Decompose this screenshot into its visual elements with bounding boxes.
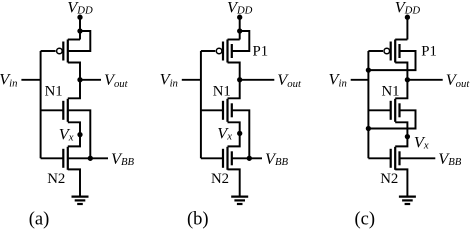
- N2 gate lead (c): [368, 157, 390, 159]
- ground (b): [231, 196, 248, 198]
- N2 source lead (c): [395, 169, 407, 196]
- nmos N2 (b): [226, 147, 228, 170]
- wire Vout to N1 drain (a): [68, 80, 80, 99]
- N1 source lead to Vx (a): [68, 122, 80, 146]
- wire VDD to PMOS source (b): [239, 17, 241, 39]
- node dot Vout (c): [405, 78, 409, 82]
- N2 source lead (b): [228, 169, 240, 196]
- wire PMOS bulk to VDD (b): [232, 31, 250, 51]
- wire Vout (a): [80, 79, 101, 81]
- nmos N1 (c): [394, 99, 396, 122]
- input bus wire (a): [40, 51, 42, 158]
- svg-text:P1: P1: [421, 43, 437, 59]
- VDD terminal dot (c): [405, 15, 409, 19]
- node dot Vx (a): [78, 132, 82, 136]
- ground (a): [72, 196, 89, 198]
- pmos drain lead to Vout (a): [68, 63, 80, 80]
- VDD terminal dot (a): [78, 15, 82, 19]
- pmos source lead (a): [68, 39, 80, 41]
- ground (c): [399, 196, 416, 198]
- wire N2 bulk to VBB (c): [400, 157, 436, 159]
- wire Vin to bus (b): [182, 79, 201, 81]
- svg-text:P1: P1: [253, 43, 269, 59]
- svg-text:N2: N2: [47, 171, 65, 187]
- wire PMOS bulk to VDD (a): [68, 31, 91, 51]
- node dot Vout (a): [78, 78, 82, 82]
- node dot Vx (c): [405, 134, 409, 138]
- VDD terminal dot (b): [238, 15, 242, 19]
- junction dot VDD/bulk (a): [78, 29, 82, 33]
- wire N1 bulk to VBB (a): [68, 110, 91, 158]
- pmos P1 (c): [394, 40, 396, 63]
- node dot bulk/bus junction (c): [366, 68, 370, 72]
- N2 gate lead (a): [41, 157, 64, 159]
- pmos drain lead to Vout (c): [395, 63, 407, 80]
- wire N1 bulk to VBB (b): [232, 110, 250, 158]
- pmos (a): [67, 40, 69, 63]
- svg-text:(b): (b): [187, 209, 209, 229]
- wire Vin to bus (a): [21, 79, 40, 81]
- nmos N1 (b): [226, 99, 228, 122]
- pmos source lead (b): [228, 39, 240, 41]
- junction dot VDD/bulk (b): [238, 29, 242, 33]
- wire N2 bulk to VBB (a): [68, 157, 108, 159]
- wire Vin to bus (c): [351, 79, 369, 81]
- svg-text:N2: N2: [211, 171, 229, 187]
- wire Vout to N1 drain (c): [395, 80, 407, 99]
- svg-text:(a): (a): [29, 209, 50, 229]
- nmos N2 (a): [67, 147, 69, 170]
- N1 source lead to Vx (b): [228, 122, 240, 146]
- svg-text:(c): (c): [355, 209, 376, 229]
- node dot VBB junction (b): [247, 156, 251, 160]
- svg-text:N1: N1: [382, 83, 400, 99]
- input bus wire (c): [367, 51, 369, 158]
- node dot Vout (b): [238, 78, 242, 82]
- pmos drain lead to Vout (b): [228, 63, 240, 80]
- N1 source lead to Vx (c): [395, 122, 407, 146]
- node dot Vx (b): [238, 131, 242, 135]
- wire Vout (c): [407, 79, 442, 81]
- wire Vout to N1 drain (b): [228, 80, 240, 99]
- wire VDD to PMOS source (c): [406, 17, 408, 39]
- pmos source lead (c): [395, 39, 407, 41]
- wire VDD to PMOS source (a): [79, 17, 81, 39]
- nmos N2 (c): [394, 147, 396, 170]
- nmos N1 (a): [67, 99, 69, 122]
- wire N2 bulk to VBB (b): [232, 157, 262, 159]
- N2 source lead (a): [68, 169, 80, 196]
- node dot bulk/bus junction 2 (c): [366, 126, 370, 130]
- svg-text:N1: N1: [213, 83, 231, 99]
- N2 gate lead (b): [201, 157, 223, 159]
- wire PMOS bulk to input bus (c): [368, 51, 415, 70]
- pmos P1 (b): [226, 40, 228, 63]
- input bus wire (b): [200, 51, 202, 158]
- node dot VBB junction (a): [88, 156, 92, 160]
- svg-text:N2: N2: [380, 171, 398, 187]
- wire Vout (b): [240, 79, 275, 81]
- svg-text:N1: N1: [45, 83, 63, 99]
- wire N1 bulk to input bus (c): [368, 110, 415, 128]
